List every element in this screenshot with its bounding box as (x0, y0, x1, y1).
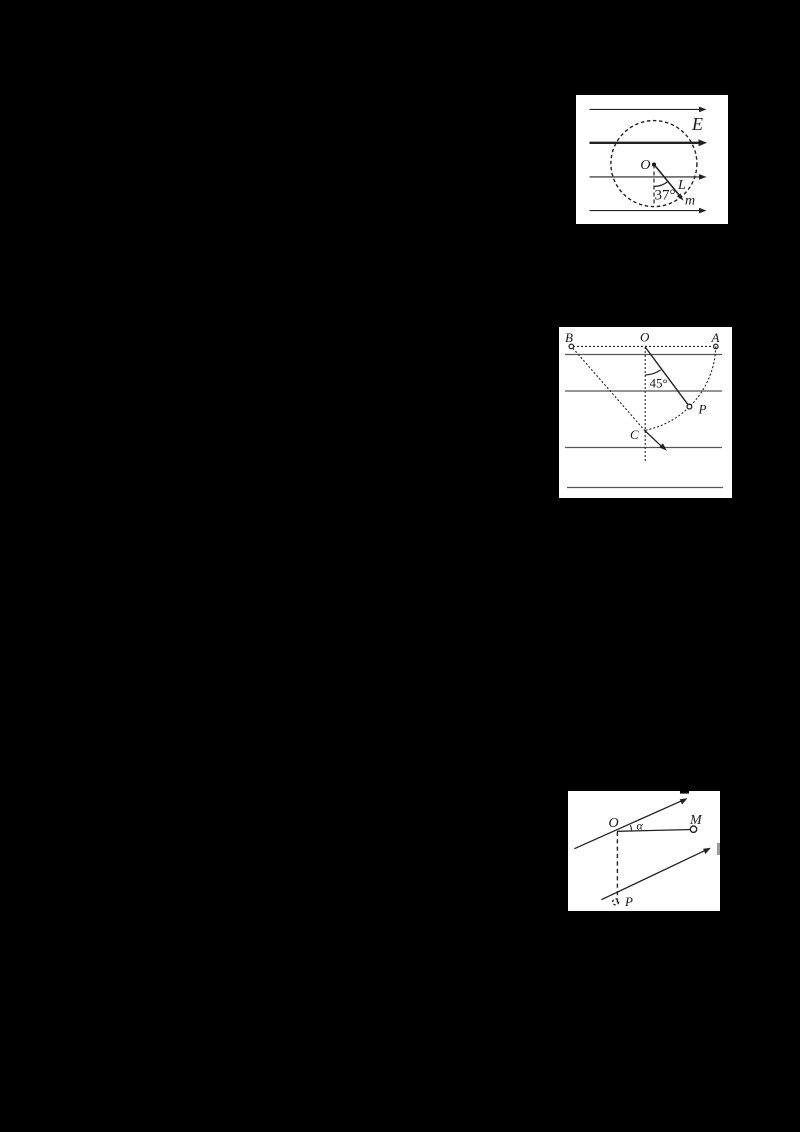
svg-text:α: α (637, 819, 644, 833)
svg-text:L: L (677, 178, 686, 193)
svg-text:E: E (691, 114, 703, 134)
svg-text:37°: 37° (655, 188, 676, 204)
svg-text:O: O (640, 330, 650, 345)
svg-text:M: M (689, 813, 703, 828)
svg-text:m: m (685, 194, 695, 209)
svg-text:P: P (698, 402, 707, 417)
svg-text:P: P (624, 894, 633, 909)
svg-text:45°: 45° (650, 376, 668, 391)
svg-text:C: C (630, 427, 639, 442)
svg-text:O: O (640, 158, 650, 173)
svg-text:B: B (565, 330, 573, 345)
svg-text:A: A (711, 330, 720, 345)
svg-text:O: O (609, 816, 619, 831)
